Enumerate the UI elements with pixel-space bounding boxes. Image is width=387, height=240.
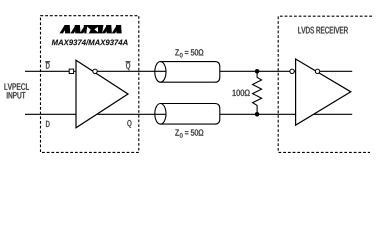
label Q <box>127 120 131 128</box>
wire Qbar output <box>97 70 165 72</box>
MAX9374 dashed box <box>41 16 139 153</box>
junction dot top <box>255 69 260 74</box>
label Z0 = 50 ohm bottom <box>175 129 203 137</box>
transmission line T2 bottom coax <box>155 104 220 125</box>
label Qbar <box>126 62 131 70</box>
label Z0 = 50 ohm top <box>175 49 203 57</box>
wire receiver output bottom <box>314 113 353 115</box>
output bubble on top edge <box>93 69 97 73</box>
wire Q output <box>97 113 165 115</box>
input square pin <box>69 69 76 73</box>
junction dot bottom <box>255 112 260 117</box>
label D <box>46 121 49 127</box>
buffer U1 triangle <box>76 60 128 128</box>
wire Dbar input <box>25 70 69 72</box>
receiver U2 triangle <box>296 59 351 125</box>
wire T2 to receiver <box>220 113 296 115</box>
label LVDS RECEIVER <box>298 27 348 34</box>
label 100 ohm <box>233 90 250 96</box>
wire D input <box>25 113 76 115</box>
wire receiver output top <box>320 70 353 72</box>
LVDS receiver dashed box <box>278 16 372 152</box>
part number MAX9374/MAX9374A <box>52 39 128 45</box>
resistor R1 100 ohm <box>253 71 262 114</box>
wire T1 to receiver <box>220 70 290 72</box>
receiver input bubble <box>290 69 296 73</box>
receiver bubble on top edge <box>315 69 319 73</box>
label Dbar <box>45 62 50 69</box>
transmission line T1 top coax <box>155 62 220 83</box>
MAXIM logo <box>60 25 122 33</box>
label LVPECL INPUT <box>5 83 29 98</box>
